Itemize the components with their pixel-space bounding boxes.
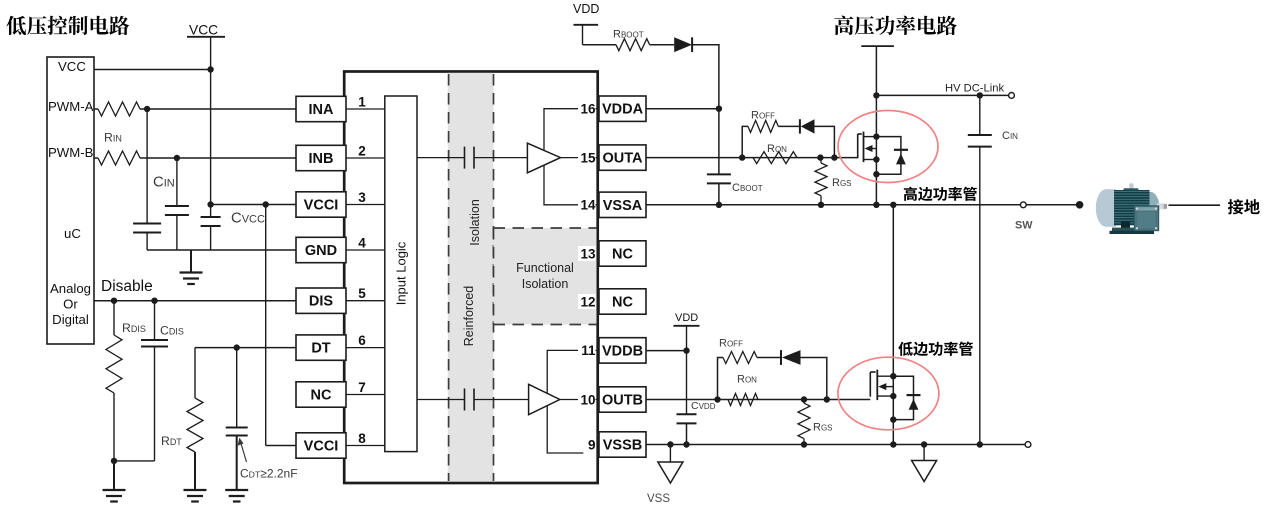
diode body Q1 (876, 137, 901, 175)
resistor RIN (PWM-B) (94, 157, 98, 159)
capacitor CBOOT (707, 173, 731, 175)
ROFF B branch wire (718, 358, 724, 400)
node PWM-B RC (174, 155, 180, 161)
highlight ellipse Q2 (838, 357, 939, 430)
pin box DT (pin 6) (296, 335, 346, 360)
wire CVDD to VSSB (686, 423, 688, 444)
svg-text:Digital: Digital (52, 312, 89, 327)
svg-text:VCC: VCC (58, 59, 86, 74)
node VDDA bootstrap (716, 106, 722, 112)
motor icon (1096, 183, 1167, 234)
node VDDB (683, 347, 689, 353)
wire VDDA pin to bootstrap node (646, 108, 719, 110)
svg-text:13: 13 (580, 246, 596, 261)
wire VDDB pin (646, 350, 687, 352)
svg-text:NC: NC (612, 295, 633, 311)
node CVDD bottom (683, 441, 689, 447)
svg-text:SW: SW (1015, 220, 1033, 232)
svg-text:15: 15 (580, 150, 596, 165)
resistor RBOOT (616, 39, 650, 51)
resistor ROFF A (748, 120, 778, 132)
capacitor on PWM-A node (146, 109, 148, 224)
transistor Q2 low-side MOSFET (870, 370, 893, 401)
pin 2 stub wire (344, 157, 385, 159)
node RGS A bottom (818, 202, 824, 208)
svg-text:VDDA: VDDA (602, 102, 644, 118)
node HS source (873, 202, 879, 208)
svg-text:RGS: RGS (832, 177, 852, 189)
node CBOOT VSSA (716, 202, 722, 208)
node VCC junction (207, 66, 213, 72)
resistor RGS A (820, 158, 822, 163)
svg-text:CVDD: CVDD (691, 400, 716, 412)
diode D1 bootstrap (674, 37, 692, 52)
arrow CDT pointer (240, 439, 247, 463)
svg-text:NC: NC (612, 247, 633, 263)
resistor ROFF B (723, 352, 757, 364)
pin box OUTB (pin 10) (599, 387, 646, 412)
wire VCCI3 to VCCI8 link (265, 205, 267, 446)
wire RBOOT to diode (650, 44, 675, 46)
high-side channel coupling wire and isolation capacitor (417, 157, 465, 159)
svg-text:VDD: VDD (675, 312, 698, 324)
ground triangle (power) (923, 445, 925, 461)
ground symbol below RDT (194, 478, 196, 490)
svg-text:14: 14 (580, 198, 596, 213)
diode D3 low side (757, 357, 782, 359)
resistor RIN (PWM-A) (94, 108, 98, 110)
svg-text:INB: INB (309, 151, 334, 167)
node RGS B bottom (801, 441, 807, 447)
pin 6 stub wire (344, 347, 385, 349)
pin box DIS (pin 5) (296, 288, 346, 313)
svg-text:uC: uC (64, 226, 81, 241)
resistor RGS B (803, 400, 805, 404)
pin box NC (pin 12) (599, 289, 646, 314)
svg-text:5: 5 (358, 286, 366, 301)
node Disable CDIS tap (151, 298, 157, 304)
node OUTA ROFF tap (739, 154, 745, 160)
reinforced isolation band (448, 73, 494, 482)
uC block (47, 57, 94, 344)
node Q1 drain (873, 133, 879, 139)
svg-text:16: 16 (580, 102, 596, 117)
svg-text:2: 2 (358, 144, 366, 159)
node Q2 source (890, 393, 896, 399)
IC gate driver body (344, 72, 598, 484)
svg-text:10: 10 (580, 392, 595, 407)
resistor RON B (728, 394, 758, 406)
node ROFF B return (824, 396, 830, 402)
pin 5 stub wire (344, 300, 385, 302)
svg-text:11: 11 (581, 343, 596, 358)
pin 15 number (578, 150, 596, 165)
wire PWM-B node to INB (177, 157, 296, 159)
svg-text:1: 1 (358, 95, 366, 110)
wire uC VCC pin to VCC rail (94, 69, 211, 71)
node PWM-A RC (144, 106, 150, 112)
wire motor to earth (1169, 204, 1221, 206)
wire VCC rail down (210, 70, 212, 218)
pin 13 number (578, 246, 596, 261)
svg-text:VCCI: VCCI (304, 198, 339, 214)
svg-text:Reinforced: Reinforced (462, 286, 476, 346)
motor terminal dot (1076, 201, 1084, 209)
node HV DC-link (873, 92, 879, 98)
capacitor CDIS (154, 301, 156, 340)
svg-text:RON: RON (737, 374, 757, 386)
pin box VCCI (pin 3) (296, 192, 346, 217)
node earth tap (921, 441, 927, 447)
node LS drain tap (890, 202, 896, 208)
capacitor CDT (236, 348, 238, 428)
pin 7 stub wire (344, 394, 385, 396)
svg-text:Analog: Analog (50, 281, 91, 296)
svg-text:RON: RON (767, 143, 787, 155)
svg-text:RDIS: RDIS (122, 321, 146, 335)
terminal HV DC-Link (1009, 93, 1015, 99)
functional isolation box (494, 228, 597, 325)
node RGS A tap (817, 154, 823, 160)
node Q2 drain (890, 373, 896, 379)
pin box NC (pin 7) (296, 382, 346, 407)
pin 3 stub wire (344, 204, 385, 206)
node VCCI link tap (263, 201, 269, 207)
wire Disable to DIS pin (94, 300, 296, 302)
wire diode to gate node (815, 126, 835, 157)
wire OUTA to gate (646, 157, 858, 159)
svg-text:NC: NC (311, 388, 332, 404)
svg-text:ROFF: ROFF (719, 338, 743, 350)
diode body Q2 (893, 376, 913, 419)
label low-side power transistor (Chinese) (898, 342, 972, 356)
capacitor CIN (DC link) (979, 95, 981, 135)
svg-text:VSS: VSS (647, 493, 670, 505)
wire VSSA SW rail (646, 204, 1021, 206)
wire DT pin (195, 347, 296, 349)
pin box VCCI (pin 8) (296, 433, 346, 458)
svg-text:VSSA: VSSA (603, 198, 643, 214)
pin 14 number (578, 197, 596, 212)
node Q2 source rail (890, 441, 896, 447)
high-side bracket to pins 16/14 (544, 109, 598, 205)
wire VDD to RBOOT (583, 44, 617, 46)
wire diode to VDDA node (692, 45, 719, 175)
node Disable RDIS tap (111, 298, 117, 304)
resistor RDT (194, 348, 196, 398)
terminal SW open circle (1020, 202, 1026, 208)
pin 1 stub wire (344, 108, 385, 110)
capacitor CVCC (201, 216, 221, 218)
pin box VSSB (pin 9) (599, 432, 646, 457)
node DT CDT tap (234, 344, 240, 350)
svg-text:9: 9 (588, 437, 596, 452)
svg-text:RBOOT: RBOOT (613, 29, 644, 41)
highlight ellipse Q1 (838, 111, 938, 183)
node Q1 source (873, 156, 879, 162)
wire OUTB to gate (646, 399, 870, 401)
ground symbol below RDIS (113, 461, 115, 490)
label earth (Chinese) (1228, 199, 1260, 214)
ground VSS triangle (669, 445, 671, 463)
svg-text:VSSB: VSSB (603, 438, 643, 454)
svg-text:4: 4 (358, 236, 366, 251)
svg-text:Disable: Disable (101, 278, 153, 295)
svg-text:Isolation: Isolation (468, 199, 482, 246)
input logic block (385, 96, 417, 452)
ground symbol at GND rail (190, 250, 192, 273)
svg-text:6: 6 (358, 333, 366, 348)
svg-text:12: 12 (580, 294, 595, 309)
node Q2 diode return (890, 416, 896, 422)
svg-text:CBOOT: CBOOT (732, 182, 763, 194)
svg-text:INA: INA (309, 102, 335, 118)
wire CBOOT to VSSA (718, 183, 720, 204)
svg-text:OUTB: OUTB (602, 393, 643, 409)
pin 16 number (578, 101, 596, 116)
node Q1 diode return (873, 171, 879, 177)
wire VSSB rail (646, 444, 1025, 446)
pin box VSSA (pin 14) (599, 192, 646, 217)
diode D2 high side (778, 125, 801, 127)
node ROFF A return (831, 154, 837, 160)
node VSS ground tap (667, 441, 673, 447)
pin 11 number (578, 343, 596, 358)
svg-text:VDD: VDD (573, 2, 599, 16)
svg-text:VCC: VCC (189, 23, 218, 38)
buffer A triangle (527, 143, 560, 173)
pin box VDDA (pin 16) (599, 96, 646, 121)
node OUTB ROFF tap (714, 396, 720, 402)
pin box INA (pin 1) (296, 96, 346, 121)
svg-text:CIN: CIN (153, 174, 175, 190)
wire local GND rail (147, 249, 296, 251)
node CIN bottom (977, 441, 983, 447)
svg-text:VDDB: VDDB (602, 343, 643, 359)
svg-text:Or: Or (63, 297, 78, 312)
low-side bracket to pins 11/9 (547, 350, 598, 453)
svg-text:ROFF: ROFF (751, 110, 775, 122)
svg-text:Input Logic: Input Logic (394, 241, 409, 305)
svg-text:DIS: DIS (309, 294, 334, 310)
node RDIS CDIS junction (111, 458, 117, 464)
node VCC to VCCI (207, 201, 213, 207)
title: low-voltage control circuit (Chinese) (6, 16, 129, 35)
title: high-voltage power circuit (Chinese) (834, 16, 956, 35)
resistor RDIS (113, 301, 115, 335)
svg-text:PWM-A: PWM-A (48, 99, 94, 114)
resistor RON A (753, 152, 797, 164)
svg-text:HV DC-Link: HV DC-Link (945, 83, 1004, 95)
pin 4 stub wire (344, 249, 385, 251)
svg-text:CDIS: CDIS (160, 324, 184, 338)
pin box GND (pin 4) (296, 237, 346, 262)
capacitor CVDD (677, 413, 697, 415)
pin 12 number (578, 294, 596, 309)
capacitor CIN (176, 158, 178, 206)
wire HV DC-Link (876, 94, 1008, 96)
buffer B triangle (529, 384, 560, 414)
HV DC-link top bar (861, 45, 894, 47)
ROFF A branch wire (742, 126, 748, 157)
svg-text:OUTA: OUTA (602, 151, 643, 167)
wire VCCI pin3 (211, 204, 296, 206)
ground symbol below CDT (236, 478, 238, 490)
svg-text:3: 3 (358, 190, 366, 205)
buffer B output stub (560, 399, 598, 401)
terminal VSSB open circle (1025, 442, 1031, 448)
pin box OUTA (pin 15) (599, 145, 646, 170)
label high-side power transistor (Chinese) (904, 187, 977, 201)
svg-text:RDT: RDT (161, 434, 182, 448)
svg-text:8: 8 (358, 431, 366, 446)
wire HV bus down (875, 46, 877, 205)
svg-text:7: 7 (358, 380, 366, 395)
wire SW to motor (1026, 204, 1076, 206)
transistor Q1 high-side MOSFET (858, 132, 877, 163)
wire diode to gate node B (801, 358, 827, 400)
svg-text:RGS: RGS (813, 422, 833, 434)
wire SW to Q2 drain and source to VSSB (892, 205, 894, 445)
node CIN top (977, 92, 983, 98)
svg-text:Functional: Functional (516, 261, 574, 275)
pin 9 number (578, 437, 596, 452)
wire PWM-A node to INA (147, 108, 296, 110)
svg-text:GND: GND (305, 243, 337, 259)
pin 10 number (578, 392, 596, 407)
svg-text:VCCI: VCCI (304, 439, 339, 455)
pin box VDDB (pin 11) (599, 338, 646, 363)
svg-text:Isolation: Isolation (522, 277, 569, 291)
pin box INB (pin 2) (296, 145, 346, 170)
node RGS B tap (801, 396, 807, 402)
buffer A output stub (561, 157, 598, 159)
pin 8 stub wire (344, 445, 385, 447)
svg-text:PWM-B: PWM-B (48, 145, 94, 160)
svg-text:RIN: RIN (104, 131, 122, 145)
svg-text:DT: DT (311, 341, 330, 357)
svg-text:CVCC: CVCC (231, 211, 265, 227)
svg-text:CDT≥2.2nF: CDT≥2.2nF (240, 467, 298, 481)
pin box NC (pin 13) (599, 241, 646, 266)
svg-text:CIN: CIN (1002, 130, 1018, 142)
low-side channel coupling wire and isolation capacitor (417, 399, 465, 401)
